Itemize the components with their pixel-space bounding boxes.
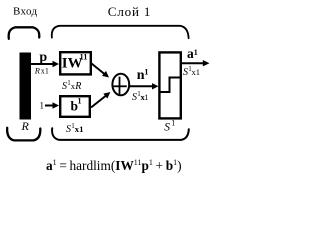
svg-text:1: 1 — [79, 124, 83, 134]
svg-text:1: 1 — [144, 92, 148, 102]
transfer function block — [159, 52, 180, 118]
svg-text:R: R — [21, 119, 30, 133]
svg-text:1: 1 — [194, 48, 198, 57]
svg-text:p: p — [39, 50, 47, 65]
svg-text:a1 = hardlim(IW11p1 + b1): a1 = hardlim(IW11p1 + b1) — [46, 158, 182, 173]
wire sum to transfer block — [130, 85, 153, 87]
svg-text:1: 1 — [144, 67, 148, 77]
sum junction circle — [112, 74, 129, 96]
bias box b1 — [60, 96, 90, 117]
hardlim icon — [161, 78, 181, 93]
wire p arrow from bar to IW box — [31, 63, 54, 65]
input bracket bottom — [7, 128, 40, 141]
svg-text:1: 1 — [171, 118, 175, 127]
svg-text:Слой 1: Слой 1 — [108, 4, 151, 19]
wire output a1 — [182, 62, 204, 64]
svg-text:1: 1 — [78, 97, 82, 106]
svg-text:1: 1 — [40, 100, 45, 110]
weight box IW11 — [60, 52, 91, 74]
input bar (vector p) — [20, 53, 32, 120]
layer bracket bottom — [52, 128, 189, 140]
layer bracket top — [52, 26, 189, 38]
input bracket top — [9, 27, 40, 39]
wire IW to sum junction — [92, 64, 105, 75]
svg-text:R: R — [74, 81, 81, 92]
svg-text:S: S — [164, 121, 170, 133]
svg-text:S: S — [62, 81, 67, 92]
svg-text:1: 1 — [45, 67, 49, 76]
svg-text:Вход: Вход — [13, 6, 38, 18]
wire b to sum junction — [91, 96, 106, 108]
wire 1 arrow to b box — [45, 105, 54, 107]
svg-text:11: 11 — [80, 52, 88, 62]
svg-text:1: 1 — [196, 67, 200, 77]
